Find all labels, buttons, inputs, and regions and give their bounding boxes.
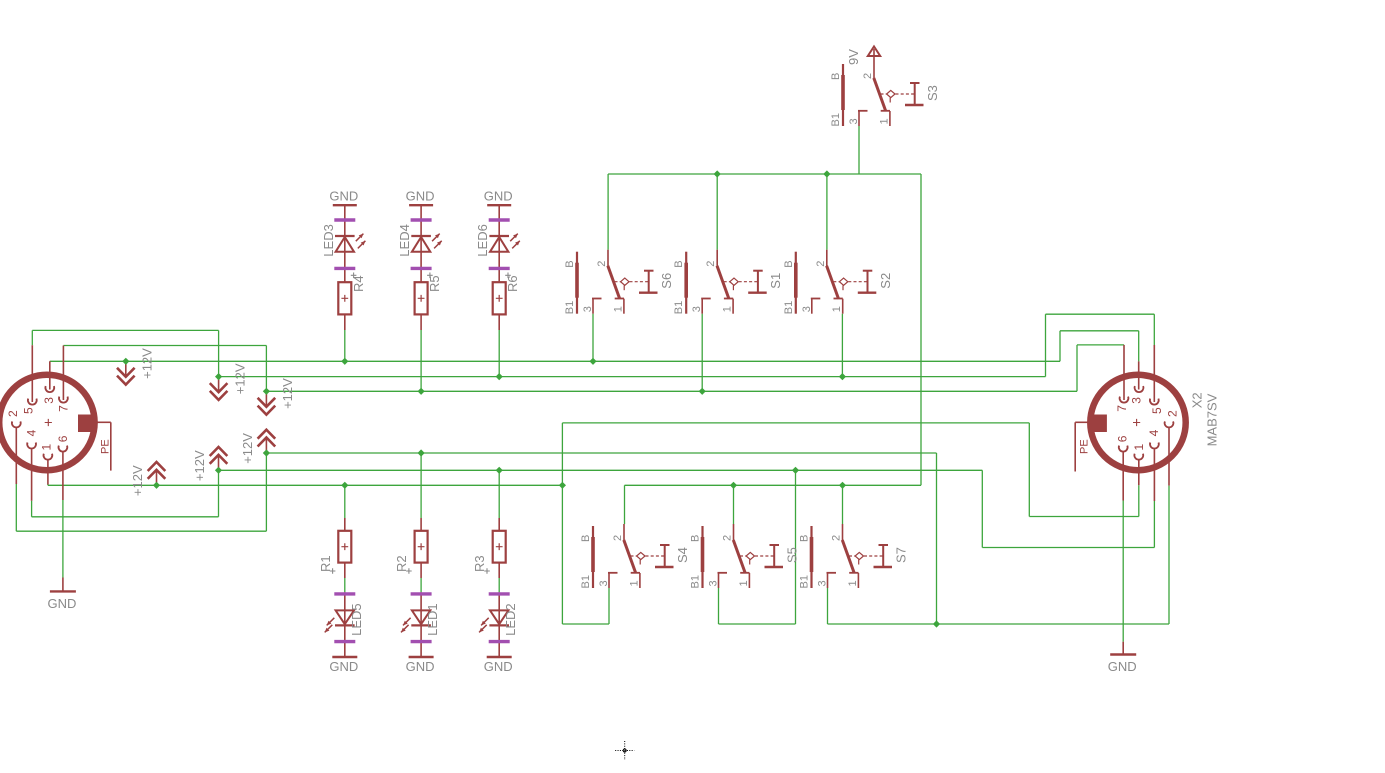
svg-text:+12V: +12V bbox=[140, 348, 155, 379]
junction bbox=[153, 482, 160, 489]
resistor R5 bbox=[415, 282, 428, 314]
wire net C: S1 pin3 drop bbox=[701, 314, 703, 392]
X1 pin 6 bbox=[59, 446, 68, 452]
LED LED3 bbox=[335, 235, 355, 237]
junction bbox=[341, 358, 348, 365]
svg-text:2: 2 bbox=[612, 535, 624, 541]
svg-text:5: 5 bbox=[1150, 407, 1164, 414]
wire net E: X1 pin4 drop bbox=[31, 501, 33, 517]
S7 lamp bar B-B1 bbox=[810, 526, 812, 588]
svg-text:6: 6 bbox=[56, 435, 70, 442]
S2 actuator link bbox=[833, 281, 839, 283]
X2 pin 5 bbox=[1150, 399, 1159, 405]
svg-text:MAB7SV: MAB7SV bbox=[1204, 393, 1219, 446]
S5 actuator link bbox=[740, 555, 746, 557]
X1 pin 1 bbox=[44, 454, 53, 460]
svg-text:1: 1 bbox=[1132, 444, 1146, 451]
S1 actuator link bbox=[724, 281, 730, 283]
S3 lever bbox=[874, 78, 886, 111]
S3 pin 1 terminal bbox=[881, 110, 890, 112]
svg-text:R2: R2 bbox=[394, 555, 409, 572]
svg-text:B1: B1 bbox=[580, 575, 592, 588]
X2 pin 3 bbox=[1135, 386, 1144, 392]
pin wire bbox=[344, 314, 346, 330]
wire net E: lower horizontal bbox=[32, 516, 219, 518]
switch S4 bbox=[580, 524, 690, 589]
wire R1 to LED5 bbox=[344, 578, 346, 592]
wire net 9V: S5 pin2 drop bbox=[733, 485, 735, 524]
switch S5 bbox=[690, 524, 800, 589]
wire net A: X1 pin3 bus bbox=[50, 360, 1060, 362]
wire net 9V: S2 pin2 drop bbox=[826, 174, 828, 250]
purple pin bar bbox=[411, 640, 432, 643]
wire net A: S6 pin3 drop bbox=[592, 314, 594, 362]
svg-text:1: 1 bbox=[738, 580, 750, 586]
svg-text:1: 1 bbox=[847, 580, 859, 586]
emission arrows bbox=[403, 618, 411, 626]
svg-text:3: 3 bbox=[582, 306, 594, 312]
X1 pin 2 bbox=[12, 421, 21, 427]
purple pin bar bbox=[411, 592, 432, 595]
wire R2 to LED1 bbox=[420, 578, 422, 592]
X2 origin cross bbox=[1133, 419, 1140, 426]
S2 lever bbox=[827, 266, 839, 299]
junction S5 pin3 riser bbox=[792, 467, 799, 474]
LED LED2 to GND chain bbox=[479, 592, 518, 657]
svg-text:5: 5 bbox=[22, 407, 36, 414]
+12V supply symbol bbox=[240, 430, 275, 464]
S7 actuator link bbox=[849, 555, 855, 557]
S4 pin 1 terminal bbox=[631, 572, 640, 574]
LED LED2 bbox=[490, 610, 508, 624]
GND symbol below X1 bbox=[62, 578, 64, 592]
junction S1 pin3 bbox=[699, 388, 706, 395]
svg-text:B1: B1 bbox=[783, 301, 795, 314]
wire net 9V: S1 pin2 drop bbox=[716, 174, 718, 250]
resistor R1 bbox=[318, 518, 352, 578]
svg-text:LED1: LED1 bbox=[425, 603, 440, 636]
wire net D: to X2 pin1 bbox=[1029, 516, 1139, 518]
S4 pin 3 terminal bbox=[608, 572, 618, 574]
connector X2 bbox=[1075, 345, 1219, 501]
svg-text:3: 3 bbox=[42, 397, 56, 404]
svg-text:GND: GND bbox=[329, 189, 358, 204]
resistor R2 bbox=[394, 518, 428, 578]
wire net B: X1 pin5 riser bbox=[31, 330, 33, 345]
S6 pin 1 terminal bbox=[615, 298, 624, 300]
S1 pin 2 bbox=[716, 250, 718, 267]
wire net A: right riser bbox=[1059, 331, 1061, 362]
wire net F: to X2 pin2 bbox=[937, 623, 1170, 625]
svg-text:4: 4 bbox=[25, 429, 39, 436]
svg-text:+12V: +12V bbox=[232, 363, 247, 394]
wire net E: riser bbox=[218, 470, 220, 517]
switch S3 bbox=[830, 47, 940, 127]
wire net A: to X2 pin3 bbox=[1060, 330, 1139, 332]
switch S7 bbox=[799, 524, 909, 589]
X1 key notch bbox=[78, 415, 97, 433]
svg-text:S6: S6 bbox=[659, 273, 674, 289]
LED LED1 bbox=[412, 610, 430, 624]
wire net E: S5 pin3 riser bbox=[795, 470, 797, 624]
GND symbol above LED3 bbox=[329, 189, 358, 206]
svg-text:2: 2 bbox=[1165, 410, 1179, 417]
svg-text:1: 1 bbox=[878, 118, 890, 124]
junction net D riser bbox=[559, 482, 566, 489]
S7 button symbol bbox=[879, 544, 889, 546]
S1 lever bbox=[717, 266, 729, 299]
junction bbox=[496, 373, 503, 380]
S2 pin 2 bbox=[826, 250, 828, 267]
svg-text:6: 6 bbox=[1116, 435, 1130, 442]
S6 lever bbox=[608, 266, 620, 299]
purple pin bar bbox=[489, 592, 510, 595]
junction R to bus bbox=[418, 449, 425, 456]
svg-text:B: B bbox=[673, 260, 685, 267]
wire net C: bus bbox=[266, 390, 1077, 392]
S1 pin 1 terminal bbox=[724, 298, 733, 300]
svg-text:R1: R1 bbox=[318, 555, 333, 572]
svg-text:2: 2 bbox=[862, 73, 874, 79]
svg-text:2: 2 bbox=[831, 535, 843, 541]
S7 pin 3 terminal bbox=[827, 572, 837, 574]
emission arrows bbox=[481, 618, 489, 626]
S2 button symbol bbox=[863, 270, 873, 272]
wire X1 pin6 to GND bbox=[62, 500, 64, 578]
svg-text:B1: B1 bbox=[799, 575, 811, 588]
wire net 9V: bottom horizontal bbox=[625, 484, 922, 486]
junction R to bus bbox=[496, 467, 503, 474]
wire net 9V: S3 pin3 drop bbox=[858, 126, 860, 174]
X1 pin 7 bbox=[59, 397, 68, 403]
emission arrows bbox=[356, 234, 364, 242]
svg-text:3: 3 bbox=[817, 580, 829, 586]
GND symbol below LED1 bbox=[406, 657, 435, 674]
X1 origin cross bbox=[45, 419, 52, 426]
wire net F: riser bbox=[265, 453, 267, 531]
wire net D: X1 pin1 drop bbox=[47, 484, 49, 485]
junction bbox=[215, 467, 222, 474]
junction bbox=[418, 388, 425, 395]
wire net C: to X2 pin7 bbox=[1077, 344, 1124, 346]
S3 pin 2 bbox=[873, 62, 875, 79]
wire net B: to X2 pin5 bbox=[1046, 313, 1155, 315]
svg-text:GND: GND bbox=[484, 659, 513, 674]
purple pin bar bbox=[489, 640, 510, 643]
junction bbox=[263, 449, 270, 456]
junction R to bus bbox=[341, 482, 348, 489]
S5 button symbol bbox=[770, 544, 780, 546]
S1 pin 3 terminal bbox=[701, 298, 711, 300]
wire net 9V: S6 pin2 drop bbox=[607, 174, 609, 250]
S2 pin 3 terminal bbox=[811, 298, 821, 300]
S4 button symbol bbox=[660, 544, 670, 546]
wire net D: bus bbox=[48, 484, 563, 486]
svg-text:LED5: LED5 bbox=[349, 603, 364, 636]
svg-text:B: B bbox=[564, 260, 576, 267]
S6 actuator link bbox=[615, 281, 621, 283]
svg-text:S5: S5 bbox=[785, 547, 800, 563]
LED LED5 bbox=[336, 610, 354, 624]
switch S6 bbox=[564, 250, 674, 315]
+12V supply symbol bbox=[117, 348, 155, 385]
svg-text:2: 2 bbox=[722, 535, 734, 541]
svg-text:9V: 9V bbox=[846, 49, 861, 65]
wire R4 to bus bbox=[344, 330, 346, 361]
svg-text:B: B bbox=[799, 535, 811, 542]
S1 button symbol bbox=[753, 270, 763, 272]
pin wire bbox=[498, 314, 500, 330]
wire net 9V: S7 pin2 drop bbox=[842, 485, 844, 524]
svg-text:1: 1 bbox=[628, 580, 640, 586]
svg-text:GND: GND bbox=[406, 189, 435, 204]
wire net D: riser to X2 pin1 run bbox=[561, 423, 563, 624]
wire net E: S5 pin3 link bbox=[719, 623, 796, 625]
purple pin bar bbox=[334, 592, 355, 595]
wire net D: middle horizontal bbox=[562, 422, 1029, 424]
junction net F corner bbox=[933, 620, 940, 627]
wire bus to R3 bbox=[498, 470, 500, 518]
wire net F: S7 pin3 link bbox=[828, 623, 937, 625]
X1 pin 3 bbox=[45, 386, 54, 392]
wire R6 to bus bbox=[498, 330, 500, 377]
wire net 9V: top horizontal bbox=[608, 173, 921, 175]
svg-text:LED3: LED3 bbox=[321, 224, 336, 257]
wire net 9V: S4 pin2 drop bbox=[624, 485, 626, 524]
svg-text:B1: B1 bbox=[564, 301, 576, 314]
S5 pin 1 terminal bbox=[740, 572, 749, 574]
junction bbox=[215, 373, 222, 380]
S5 lamp bar B-B1 bbox=[701, 526, 703, 588]
wire net F: bottom horizontal bbox=[16, 530, 266, 532]
S3 pin 3 terminal bbox=[858, 110, 868, 112]
sheet origin mark bbox=[615, 741, 634, 760]
emission arrows bbox=[327, 618, 335, 626]
svg-text:2: 2 bbox=[815, 261, 827, 267]
GND symbol above LED6 bbox=[484, 189, 513, 206]
svg-text:LED6: LED6 bbox=[475, 224, 490, 257]
S4 actuator link bbox=[631, 555, 637, 557]
S5 pin 3 terminal bbox=[718, 572, 728, 574]
junction bbox=[122, 358, 129, 365]
X2 pin 2 bbox=[1165, 421, 1174, 427]
resistor R6 bbox=[493, 282, 506, 314]
S7 pin 1 terminal bbox=[849, 572, 858, 574]
svg-text:B1: B1 bbox=[830, 113, 842, 126]
pin wire bbox=[420, 314, 422, 330]
wire R5 to bus bbox=[420, 330, 422, 391]
wire net F: right drop bbox=[936, 453, 938, 624]
LED LED4 with resistor R5 chain bbox=[397, 205, 442, 330]
svg-text:1: 1 bbox=[40, 444, 54, 451]
resistor R3 bbox=[472, 518, 506, 578]
GND symbol below LED2 bbox=[484, 657, 513, 674]
S6 pin 2 bbox=[607, 250, 609, 267]
S1 lamp bar B-B1 bbox=[685, 252, 687, 314]
svg-text:LED4: LED4 bbox=[397, 224, 412, 257]
X1 PE line bbox=[97, 421, 111, 423]
purple pin bar bbox=[411, 218, 432, 221]
junction S2 pin1 bbox=[839, 373, 846, 380]
svg-text:GND: GND bbox=[1108, 659, 1137, 674]
+12V supply symbol bbox=[210, 363, 248, 400]
svg-text:GND: GND bbox=[484, 189, 513, 204]
svg-text:B: B bbox=[690, 535, 702, 542]
switch S1 bbox=[673, 250, 783, 315]
S4 lamp bar B-B1 bbox=[592, 526, 594, 588]
svg-text:S7: S7 bbox=[894, 547, 909, 563]
svg-text:B: B bbox=[830, 73, 842, 80]
wire net B: bus bbox=[219, 376, 1046, 378]
LED LED6 with resistor R6 chain bbox=[475, 205, 520, 330]
LED LED5 to GND chain bbox=[325, 592, 364, 657]
GND symbol below LED5 bbox=[329, 657, 358, 674]
purple pin bar bbox=[489, 267, 510, 270]
S5 pin 2 bbox=[733, 524, 735, 541]
resistor R4 bbox=[338, 282, 351, 314]
svg-text:2: 2 bbox=[596, 261, 608, 267]
wire net D: S4 pin3 link bbox=[562, 623, 609, 625]
wire net B: right riser bbox=[1045, 314, 1047, 376]
S2 pin 1 terminal bbox=[834, 298, 843, 300]
svg-text:GND: GND bbox=[47, 596, 76, 611]
svg-text:4: 4 bbox=[1147, 429, 1161, 436]
X1 pin 5 bbox=[28, 399, 37, 405]
wire net F: X1 pin2 drop bbox=[15, 484, 17, 531]
LED LED4 bbox=[411, 235, 431, 237]
wire net B: S2 pin1 drop bbox=[841, 314, 843, 377]
S4 pin 2 bbox=[623, 524, 625, 541]
X2 pin 7 bbox=[1120, 397, 1129, 403]
wire net C: right riser bbox=[1076, 345, 1078, 391]
svg-text:3: 3 bbox=[801, 306, 813, 312]
switch S2 bbox=[783, 250, 893, 315]
GND symbol below X2 bbox=[1122, 642, 1124, 655]
S3 button symbol bbox=[910, 82, 920, 84]
purple pin bar bbox=[334, 267, 355, 270]
S4 lever bbox=[624, 540, 636, 573]
svg-text:PE: PE bbox=[1079, 439, 1091, 454]
svg-text:X2: X2 bbox=[1190, 392, 1205, 408]
svg-text:+12V: +12V bbox=[130, 465, 145, 496]
LED LED3 with resistor R4 chain bbox=[321, 205, 366, 330]
svg-text:B: B bbox=[580, 535, 592, 542]
X1 pin 4 bbox=[27, 443, 36, 449]
X1 body circle bbox=[0, 375, 95, 470]
S2 lamp bar B-B1 bbox=[795, 252, 797, 314]
svg-text:R3: R3 bbox=[472, 555, 487, 572]
GND symbol above LED4 bbox=[406, 189, 435, 206]
S3 lamp bar B-B1 bbox=[842, 64, 844, 126]
wire net F: bus bbox=[266, 452, 936, 454]
svg-text:S1: S1 bbox=[768, 273, 783, 289]
emission arrows bbox=[510, 234, 518, 242]
svg-text:1: 1 bbox=[831, 306, 843, 312]
svg-text:S3: S3 bbox=[925, 85, 940, 101]
wire bus to R2 bbox=[420, 453, 422, 518]
svg-text:R4: R4 bbox=[351, 275, 366, 292]
S6 button symbol bbox=[644, 270, 654, 272]
+12V supply symbol bbox=[130, 462, 165, 496]
connector X1 bbox=[0, 345, 112, 501]
S6 pin 3 terminal bbox=[592, 298, 602, 300]
junction S5 pin2 bbox=[730, 482, 737, 489]
purple pin bar bbox=[334, 640, 355, 643]
wire net E: to X2 pin4 bbox=[982, 547, 1154, 549]
S5 lever bbox=[733, 540, 745, 573]
svg-text:S2: S2 bbox=[878, 273, 893, 289]
svg-text:LED2: LED2 bbox=[503, 603, 518, 636]
purple pin bar bbox=[489, 218, 510, 221]
svg-text:3: 3 bbox=[598, 580, 610, 586]
svg-text:S4: S4 bbox=[675, 547, 690, 563]
wire net C: drop to bus bbox=[265, 346, 267, 392]
9V supply symbol bbox=[868, 47, 880, 57]
svg-text:7: 7 bbox=[57, 405, 71, 412]
wire net D: right drop bbox=[1028, 423, 1030, 517]
junction S1 pin2 bbox=[714, 170, 721, 177]
svg-text:PE: PE bbox=[100, 439, 112, 454]
wire net E: right drop bbox=[981, 470, 983, 547]
svg-text:+12V: +12V bbox=[280, 378, 295, 409]
svg-text:B1: B1 bbox=[673, 301, 685, 314]
junction S2 pin2 bbox=[823, 170, 830, 177]
X2 pin 1 bbox=[1134, 454, 1143, 460]
svg-text:1: 1 bbox=[612, 306, 624, 312]
wire bus to R1 bbox=[344, 485, 346, 518]
svg-text:GND: GND bbox=[329, 659, 358, 674]
wire net E: bus bbox=[219, 469, 983, 471]
svg-text:+12V: +12V bbox=[192, 450, 207, 481]
svg-text:2: 2 bbox=[705, 261, 717, 267]
wire X2 pin6 to GND bbox=[1122, 501, 1124, 642]
svg-text:3: 3 bbox=[1130, 397, 1144, 404]
svg-text:B1: B1 bbox=[690, 575, 702, 588]
svg-text:3: 3 bbox=[848, 118, 860, 124]
svg-text:3: 3 bbox=[708, 580, 720, 586]
svg-text:B: B bbox=[783, 260, 795, 267]
wire net B: upper horizontal bbox=[32, 329, 218, 331]
S6 lamp bar B-B1 bbox=[576, 252, 578, 314]
svg-text:7: 7 bbox=[1115, 405, 1129, 412]
purple pin bar bbox=[411, 267, 432, 270]
wire net B: drop to bus bbox=[218, 330, 220, 376]
S7 pin 2 bbox=[842, 524, 844, 541]
svg-text:3: 3 bbox=[691, 306, 703, 312]
X2 PE line bbox=[1075, 421, 1088, 423]
wire net C: upper horizontal bbox=[63, 345, 266, 347]
S7 lever bbox=[842, 540, 854, 573]
X2 pin 6 bbox=[1119, 446, 1128, 452]
wire R3 to LED2 bbox=[498, 578, 500, 592]
LED LED1 to GND chain bbox=[401, 592, 440, 657]
junction S6 pin3 bbox=[589, 358, 596, 365]
junction bbox=[263, 388, 270, 395]
svg-text:+12V: +12V bbox=[240, 433, 255, 464]
X2 pin 4 bbox=[1150, 443, 1159, 449]
purple pin bar bbox=[334, 218, 355, 221]
X2 body circle bbox=[1090, 375, 1185, 470]
svg-text:1: 1 bbox=[722, 306, 734, 312]
emission arrows bbox=[432, 234, 440, 242]
LED LED6 bbox=[489, 235, 509, 237]
S3 actuator link bbox=[881, 93, 887, 95]
svg-text:2: 2 bbox=[6, 410, 20, 417]
svg-text:GND: GND bbox=[406, 659, 435, 674]
wire net 9V: right vertical bbox=[920, 174, 922, 485]
junction S7 pin2 bbox=[839, 482, 846, 489]
X2 key notch bbox=[1088, 415, 1107, 433]
